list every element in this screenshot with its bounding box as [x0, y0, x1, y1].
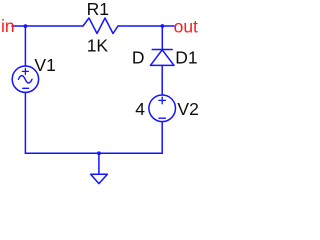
wire bottom rail up to V2 bottom	[161, 122, 163, 153]
V1 minus sign	[23, 87, 29, 89]
ground symbol	[91, 153, 108, 183]
svg-text:V1: V1	[34, 55, 55, 75]
svg-text:D1: D1	[175, 47, 197, 67]
wire V1 bottom down to bottom rail	[24, 92, 26, 153]
svg-text:V2: V2	[177, 99, 198, 119]
junction ground node	[97, 151, 101, 155]
svg-text:1K: 1K	[87, 36, 109, 56]
junction node in	[24, 24, 28, 28]
wire bottom rail	[25, 152, 162, 154]
svg-text:R1: R1	[87, 0, 109, 19]
V2 minus sign	[159, 117, 166, 119]
V1 sine wave	[18, 76, 32, 83]
wire R1 right to out	[118, 25, 174, 27]
wire V2 top up to diode anode	[161, 65, 163, 95]
diode D1 symbol	[150, 50, 174, 66]
svg-text:D: D	[132, 47, 145, 67]
svg-text:4: 4	[135, 99, 145, 119]
svg-text:in: in	[1, 16, 15, 36]
junction node out	[161, 24, 165, 28]
V2 plus sign	[159, 97, 166, 104]
resistor R1 zigzag	[83, 18, 118, 34]
wire in to R1 left	[12, 25, 83, 27]
voltage source V1 circle	[12, 66, 38, 92]
voltage source V2 circle	[149, 95, 176, 122]
wire node in down to V1 top	[24, 26, 26, 66]
wire node out down to diode cathode	[161, 26, 163, 50]
svg-text:out: out	[174, 17, 198, 37]
V1 plus sign	[22, 68, 28, 74]
